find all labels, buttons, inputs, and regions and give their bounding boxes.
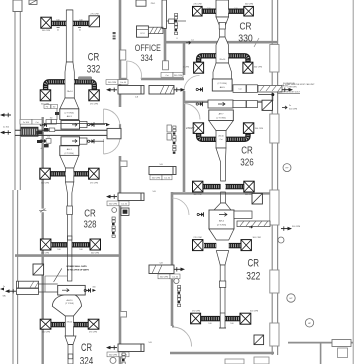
room label CR 328: [84, 208, 97, 230]
diffuser row4 right: [90, 239, 101, 255]
svg-text:322: 322: [246, 270, 260, 282]
flex duct row3 left: [50, 171, 66, 176]
corridor duct stub end: [107, 128, 121, 138]
svg-text:AH-6: AH-6: [219, 220, 225, 223]
svg-text:AH-10: AH-10: [67, 299, 74, 302]
duct flare below row5: [65, 336, 76, 345]
svg-text:Cut 40: Cut 40: [121, 203, 128, 206]
svg-text:300 CFM: 300 CFM: [289, 108, 298, 110]
far right boundary line: [352, 0, 354, 364]
flex duct row1 right: [73, 21, 89, 26]
duct right C1: [233, 85, 258, 93]
diffuser R-row3 left: [186, 123, 204, 134]
svg-text:CR: CR: [248, 257, 260, 269]
funnel below AH-10 (bell): [52, 295, 81, 316]
AH-3 unit box: [60, 109, 79, 120]
leader line right top: [277, 92, 301, 94]
flex duct R-row5 left: [204, 243, 216, 248]
east rooms west wall lower: [171, 192, 174, 326]
svg-text:HP: HP: [285, 168, 289, 170]
box C2: [208, 100, 233, 108]
flex duct R-row1 right: [229, 9, 244, 14]
return line upper: [44, 123, 107, 125]
AH-7 unit box: [209, 110, 234, 121]
door arc corridor west lower: [104, 138, 121, 154]
svg-text:300 CFM: 300 CFM: [193, 194, 202, 196]
elbow R-row2 left: [199, 56, 216, 62]
svg-text:300 CFM: 300 CFM: [41, 183, 50, 185]
svg-text:100: 100: [57, 249, 60, 251]
circle tag S6: [110, 357, 116, 363]
flex duct row5 left: [51, 322, 65, 327]
duct below R-row6: [219, 313, 226, 328]
junction dot C2: [258, 93, 274, 101]
elbow R-row3 left: [199, 134, 216, 140]
svg-text:100: 100: [230, 323, 233, 325]
svg-text:2x 300: 2x 300: [3, 126, 10, 128]
diffuser row1 right (diag): [89, 14, 100, 27]
svg-text:270 CFM: 270 CFM: [193, 237, 202, 239]
diffuser R-row2 left: [183, 62, 204, 73]
svg-text:2x: 2x: [3, 286, 5, 288]
office branch line: [166, 19, 186, 24]
valve cluster C1: [196, 87, 202, 91]
bottom right box on wall: [332, 340, 351, 347]
circle tag right 3: [305, 319, 313, 327]
elbow R-row2 right: [229, 56, 249, 62]
svg-text:270 CFM: 270 CFM: [192, 310, 201, 312]
diffuser R-row1 left: [193, 4, 203, 16]
valve right of AH-10: [84, 286, 96, 292]
svg-text:28x10: 28x10: [67, 322, 73, 324]
dark grille box corridor: [121, 208, 129, 215]
hatch duct right F: [237, 221, 270, 227]
svg-text:300 CFM: 300 CFM: [42, 30, 51, 32]
corridor stub S2 duct: [149, 86, 174, 95]
svg-text:INTAKE WALL CAPS: INTAKE WALL CAPS: [66, 265, 87, 268]
svg-text:300 CFM: 300 CFM: [109, 355, 118, 357]
svg-text:d2: d2: [79, 29, 81, 31]
damper bottom duct: [68, 354, 73, 359]
arrows below hatch F: [249, 226, 253, 228]
office door frame east: [163, 61, 169, 70]
office north jog wall: [165, 41, 186, 44]
window frame east wall 2: [270, 114, 279, 143]
diag grille CR322 bottom: [254, 335, 264, 345]
diag grille box inner wall: [33, 264, 44, 275]
svg-text:CR: CR: [241, 144, 253, 156]
duct riser CR324: [65, 316, 73, 336]
svg-text:300 CFM: 300 CFM: [292, 226, 301, 228]
corridor stub S4 arrow: [106, 194, 129, 205]
svg-text:Cut: Cut: [47, 136, 50, 139]
label 100 R6 left: [208, 323, 211, 325]
funnel to AH-5: [213, 63, 232, 79]
diffuser row3 left: [40, 168, 51, 184]
room label OFFICE 334: [135, 43, 161, 63]
valve cluster lower left: [40, 136, 51, 144]
box top edge office: [136, 0, 156, 6]
svg-text:275 CFM: 275 CFM: [90, 104, 99, 106]
circle tag S5: [174, 278, 179, 283]
east exterior wall (double): [272, 0, 277, 355]
striped coil box left: [21, 127, 38, 136]
svg-text:300 CFM: 300 CFM: [160, 277, 169, 279]
svg-text:100: 100: [208, 323, 211, 325]
corridor annotation stack S5: [178, 286, 181, 307]
room label CR 330: [238, 22, 253, 45]
arrow outside wall F: [281, 226, 301, 231]
svg-text:300 CFM: 300 CFM: [174, 75, 183, 77]
svg-text:FCU: FCU: [140, 33, 145, 35]
fan section box upper: [61, 121, 80, 130]
flex duct row1 left: [50, 21, 66, 26]
corridor stub S1 arrow: [106, 80, 128, 92]
elbow row2 left: [46, 82, 65, 90]
svg-text:200 CFM: 200 CFM: [42, 332, 51, 334]
bottom fixture box A: [225, 359, 244, 364]
svg-text:+ RETURN: + RETURN: [287, 87, 297, 89]
corridor annotation stack west: [112, 217, 115, 237]
diffuser R-row1 right: [244, 4, 254, 16]
label 100 R6 right: [230, 323, 233, 325]
svg-text:100: 100: [79, 249, 82, 251]
flex duct R-row4 right: [225, 184, 243, 189]
svg-text:Cut: Cut: [239, 88, 242, 91]
inner wall left vertical: [42, 117, 44, 364]
svg-text:100: 100: [79, 20, 82, 22]
duct riser CR322: [220, 265, 225, 313]
svg-text:100: 100: [56, 20, 59, 22]
flex duct row4 left: [52, 242, 68, 247]
svg-text:(2 TONS): (2 TONS): [65, 303, 74, 305]
corridor stub S5 duct: [149, 262, 174, 273]
door arc bottom right corridor: [172, 327, 192, 347]
svg-text:Cut: Cut: [35, 121, 39, 124]
window frame east wall 1: [270, 45, 279, 73]
label box left mech: [20, 119, 42, 124]
svg-text:(2 TONS): (2 TONS): [65, 153, 75, 155]
duct CR326 mid: [216, 131, 226, 148]
svg-text:300 CFM: 300 CFM: [109, 204, 118, 206]
diffuser row5 left: [40, 319, 51, 333]
connector lines mech bottom: [39, 276, 68, 292]
door leaf mark on wall 330: [254, 38, 259, 47]
flex duct row5 right: [74, 322, 89, 327]
label 100 row4 right: [79, 249, 82, 251]
funnel below AH-7: [209, 121, 234, 131]
diffuser R-row4 left: [193, 181, 203, 196]
diffuser R-row3 right: [243, 123, 263, 134]
svg-text:300 CFM: 300 CFM: [152, 178, 161, 180]
svg-text:300 CFM: 300 CFM: [254, 67, 263, 69]
corridor stub S1 duct: [118, 86, 144, 99]
duct right C2: [233, 101, 258, 108]
svg-text:(2 TONS): (2 TONS): [65, 112, 75, 114]
circle tag right F: [278, 237, 284, 243]
svg-text:275 CFM: 275 CFM: [89, 332, 98, 334]
east rooms west wall upper: [183, 42, 186, 75]
divider wall CR330/CR326: [184, 101, 271, 103]
tick on inner wall: [39, 209, 46, 213]
arrow outside wall C1: [282, 83, 296, 92]
office door leaf: [126, 61, 128, 79]
door arc CR326 west: [184, 104, 200, 120]
duct below row5: [68, 345, 73, 364]
svg-text:(E) REMOVE EXIST DUCT: (E) REMOVE EXIST DUCT: [277, 92, 301, 94]
duct from FCU: [148, 27, 163, 33]
damper box on riser: [67, 206, 73, 215]
circle tag right 2: [287, 294, 295, 302]
corridor stub S2 arrow: [161, 72, 185, 92]
funnel below row5: [216, 251, 228, 265]
wall rects corridor east: [167, 125, 171, 140]
flex duct R-row4 left: [203, 184, 221, 189]
funnel to AH-3: [60, 98, 79, 109]
bottom right vertical wall: [320, 343, 322, 364]
valve cluster C2: [196, 102, 202, 106]
flex duct R-row5 right: [229, 243, 241, 248]
duct taper CR326: [216, 148, 226, 181]
AH-1 unit box: [60, 146, 79, 156]
wall CR328/CR324 divider: [15, 254, 120, 257]
diag grille CR322 area: [252, 193, 262, 204]
svg-text:(2 TONS): (2 TONS): [218, 83, 228, 85]
label 100 R1 right: [234, 8, 237, 10]
diffuser row2 right: [89, 90, 100, 106]
tiny stack near CR332 wall: [113, 32, 116, 39]
south wall CR322: [170, 352, 274, 355]
svg-text:HP: HP: [308, 323, 312, 325]
svg-text:300 CFM: 300 CFM: [91, 253, 100, 255]
label 100 row1 right: [79, 20, 82, 22]
gray bar fixture CR332: [78, 76, 92, 79]
svg-text:d: d: [40, 148, 41, 150]
tick marks below flex row1: [57, 28, 81, 32]
elbow R-row3 right: [226, 134, 248, 140]
corridor stub S3 duct: [149, 164, 176, 175]
AH-5 unit box: [212, 79, 232, 91]
svg-text:8: 8: [176, 38, 177, 40]
svg-text:CR: CR: [84, 208, 96, 219]
AH-10 unit box: [58, 285, 85, 295]
corridor stub S6 arrow: [106, 345, 129, 356]
duct riser CR332 narrow: [66, 10, 73, 62]
column box top-left: [13, 0, 22, 12]
room label CR 324: [80, 342, 94, 364]
note text right wall: [278, 83, 315, 89]
diffuser R-row2 right: [243, 62, 262, 73]
svg-text:300 CFM: 300 CFM: [250, 310, 259, 312]
svg-text:OFFICE: OFFICE: [135, 43, 161, 53]
duct right of fan upper: [80, 121, 111, 127]
svg-text:2x 300: 2x 300: [23, 122, 30, 124]
flex duct R-row6 left: [201, 316, 221, 321]
door arc CR330 lower west: [184, 76, 200, 92]
svg-text:275 CFM: 275 CFM: [90, 14, 99, 16]
corridor stub S3 labels: [150, 175, 172, 180]
funnel below AH-1: [60, 155, 79, 168]
office annotation stack: [175, 14, 178, 41]
valve cluster F: [197, 212, 203, 216]
label 100 R1 left: [207, 8, 210, 10]
svg-text:2x: 2x: [289, 105, 291, 107]
corridor west wall upper: [119, 0, 122, 107]
bottom right small room box: [338, 348, 348, 358]
duct riser row4 to AH below: [67, 236, 72, 281]
svg-text:300 CFM: 300 CFM: [245, 4, 254, 6]
circle tag corridor mid: [112, 208, 117, 213]
corridor stub S5 arrow: [158, 267, 185, 279]
svg-text:100: 100: [207, 8, 210, 10]
duct bottom left upper: [17, 281, 39, 288]
duct right of fan lower: [80, 138, 105, 144]
svg-text:CR: CR: [88, 51, 100, 63]
damper on CR330 riser: [219, 22, 225, 29]
svg-text:(2 TONS): (2 TONS): [216, 117, 226, 119]
door arc corridor west upper: [104, 109, 121, 125]
exterior wall left (double line): [13, 11, 20, 364]
arrow right 2x300: [282, 105, 298, 110]
arrow bottom left wall: [0, 286, 6, 298]
east rooms west wall mid: [183, 91, 186, 192]
office door arc: [127, 61, 142, 79]
duct taper into AH-6: [214, 203, 231, 210]
svg-text:AH 7: AH 7: [219, 112, 225, 115]
svg-text:275 CFM: 275 CFM: [41, 253, 50, 255]
room label CR 322: [246, 257, 260, 282]
diffuser row3 right: [89, 168, 100, 184]
diffuser row4 left: [40, 239, 51, 255]
arrow left wall B: [0, 126, 11, 134]
window frame east wall 3: [270, 190, 279, 225]
room label CR 326: [240, 144, 254, 168]
svg-text:AH-5: AH-5: [220, 86, 226, 89]
svg-text:275 CFM: 275 CFM: [90, 183, 99, 185]
elbow row2 right: [74, 82, 94, 90]
diffuser row5 right: [88, 319, 99, 333]
duct label 28x10 CR330: [219, 59, 226, 61]
duct row3 center: [66, 168, 74, 182]
wall bump corridor west lower: [120, 312, 127, 318]
svg-text:d2: d2: [57, 29, 59, 31]
duct bottom left lower: [5, 288, 39, 294]
svg-text:300 CFM: 300 CFM: [255, 128, 264, 130]
stack bits bottom corridor: [122, 353, 125, 364]
diffuser row2 left: [40, 90, 51, 106]
svg-text:Cut: Cut: [165, 74, 169, 77]
svg-text:275 CFM: 275 CFM: [187, 128, 196, 130]
svg-text:Cut 40: Cut 40: [172, 276, 179, 279]
wall bump corridor west: [120, 161, 127, 167]
svg-text:PLAN: REMOVE EXIST CAB UNIT: PLAN: REMOVE EXIST CAB UNIT: [285, 83, 315, 86]
svg-text:330: 330: [238, 33, 253, 44]
svg-text:AH-1: AH-1: [67, 148, 73, 151]
corridor stub S4 duct: [118, 191, 156, 201]
svg-text:Cut: Cut: [220, 138, 223, 141]
corridor west wall lower: [119, 156, 122, 364]
office south wall: [120, 78, 184, 80]
duct CR330 top wide: [216, 0, 229, 17]
dark marks inner wall mech: [37, 131, 43, 150]
extra mech labels left: [44, 105, 59, 148]
flex duct row4 right: [72, 242, 90, 247]
window frame east wall 5: [270, 323, 279, 346]
grille in wall right: [262, 100, 272, 110]
corridor stub S6 duct: [118, 342, 152, 352]
door arc CR322 west: [172, 198, 189, 215]
duct riser CR332 top cap: [66, 9, 73, 11]
svg-text:CR: CR: [240, 22, 252, 33]
svg-text:HP: HP: [289, 298, 293, 300]
svg-text:300: 300: [92, 286, 95, 288]
flex duct R-row1 left: [202, 9, 216, 14]
hatch duct to wall C1: [258, 85, 282, 92]
bottom fixture box B: [254, 357, 269, 364]
svg-text:0 CFM: 0 CFM: [183, 67, 189, 69]
svg-text:270 CFM: 270 CFM: [193, 4, 202, 6]
diag box top edge left: [29, 0, 37, 4]
AH-6 unit box: [209, 210, 234, 229]
duct transition CR332: [65, 62, 74, 98]
svg-text:328: 328: [84, 220, 97, 231]
supply main corridor duct: [15, 130, 121, 135]
fan section box lower: [61, 137, 80, 146]
office east wall: [164, 28, 167, 62]
duct CR330 taper1: [216, 17, 229, 37]
valve cluster upper left: [40, 118, 56, 127]
duct CR330 flare: [216, 37, 229, 63]
svg-text:28x10: 28x10: [218, 136, 224, 138]
valve office duct: [186, 39, 194, 45]
svg-text:100: 100: [234, 8, 237, 10]
label 100 row4 left: [57, 249, 60, 251]
diffuser row1 left: [41, 17, 52, 32]
svg-text:Cut 40: Cut 40: [120, 81, 127, 84]
flex duct R-row6 right: [225, 316, 240, 321]
bottom right wall horiz: [288, 342, 353, 344]
svg-text:28x10: 28x10: [219, 59, 226, 61]
damper CR322 riser: [219, 281, 225, 287]
FCU box office: [137, 26, 149, 37]
svg-text:AT RE-OPEN OF AMPS: AT RE-OPEN OF AMPS: [67, 268, 89, 271]
svg-text:AH-3: AH-3: [67, 115, 73, 118]
diffuser R-row6 left: [191, 310, 201, 323]
corridor annotation stack east: [173, 126, 195, 154]
svg-text:300 CFM: 300 CFM: [108, 82, 117, 84]
diffuser R-row5 left: [193, 237, 203, 250]
svg-text:Cut 40: Cut 40: [164, 177, 171, 180]
svg-text:300 CFM: 300 CFM: [253, 237, 262, 239]
diffuser R-row4 right: [244, 181, 254, 196]
svg-text:CR: CR: [81, 342, 92, 354]
circle tag right 1: [283, 164, 291, 172]
window frame east wall 4: [270, 270, 279, 293]
svg-text:(2 TONS): (2 TONS): [217, 224, 227, 226]
svg-text:334: 334: [140, 53, 153, 63]
note text bottom left: [54, 265, 90, 282]
svg-text:324: 324: [80, 355, 94, 364]
divider wall CR326/CR322: [172, 192, 271, 194]
room label CR 332: [87, 51, 101, 75]
office wall item: [120, 50, 126, 60]
svg-text:332: 332: [87, 63, 101, 75]
duct right of AH-6: [234, 211, 252, 218]
duct label 28x10 CR332: [67, 91, 74, 93]
label 100 row1 left: [56, 20, 59, 22]
diffuser R-row6 right: [240, 310, 259, 324]
funnel below AH-6: [209, 229, 234, 240]
